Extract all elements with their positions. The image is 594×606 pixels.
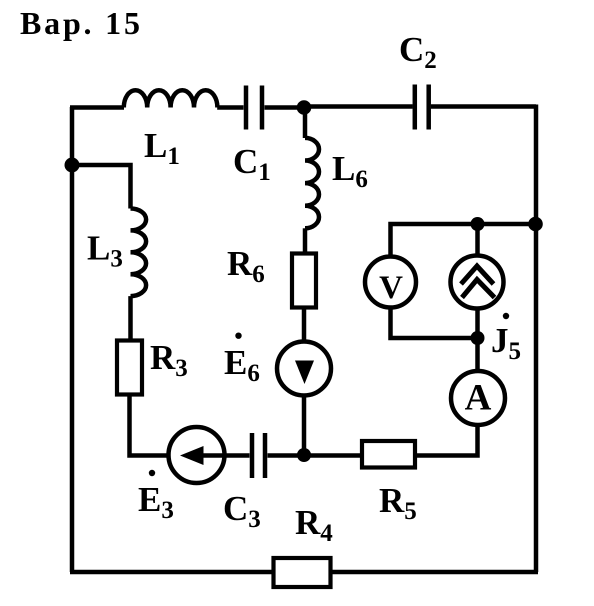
- wire C3 to node C: [268, 453, 305, 458]
- inductor L1: [124, 90, 218, 107]
- wire J5 to node D: [475, 309, 480, 339]
- wire bottom horizontal left of R4: [70, 570, 272, 575]
- svg-text:E6: E6: [224, 343, 260, 387]
- wire node A down to L6: [303, 108, 308, 139]
- EMF source E3: [169, 427, 225, 483]
- node F junction dot right: [528, 217, 543, 232]
- capacitor C1: [246, 86, 262, 130]
- J5 chevron upper: [461, 266, 494, 284]
- svg-text:R4: R4: [295, 503, 333, 547]
- svg-text:V: V: [379, 270, 403, 306]
- resistor R4: [274, 558, 331, 587]
- E3 dot accent: [149, 470, 155, 476]
- wire E6 to node C: [302, 396, 307, 456]
- wire L3 to R3: [128, 296, 133, 340]
- current source J5: [451, 256, 504, 309]
- E3 arrow: [203, 453, 224, 458]
- svg-text:R5: R5: [379, 481, 417, 525]
- resistor R3: [117, 341, 142, 395]
- E6 dot accent: [235, 333, 241, 339]
- wire L6 to R6: [303, 228, 308, 253]
- wire top left horizontal: [70, 105, 124, 110]
- svg-text:R3: R3: [150, 338, 188, 382]
- wire ammeter to node D: [475, 338, 480, 372]
- wire voltmeter to top wire: [391, 224, 539, 257]
- svg-text:C1: C1: [233, 142, 271, 186]
- wire node E down to J5: [475, 224, 480, 256]
- svg-text:C2: C2: [399, 30, 437, 74]
- resistor R6: [292, 254, 316, 308]
- node D junction dot: [471, 331, 485, 345]
- node E junction dot: [471, 217, 485, 231]
- wire node D to voltmeter branch: [391, 309, 478, 338]
- node A junction dot: [297, 100, 312, 115]
- svg-text:L1: L1: [144, 126, 180, 170]
- svg-text:Вар. 15: Вар. 15: [20, 5, 143, 41]
- wire R3 to E3: [130, 395, 169, 456]
- wire node B to L3 branch corner: [72, 165, 131, 209]
- wire E3 to C3: [225, 453, 250, 458]
- wire C1 to node A: [265, 105, 305, 110]
- capacitor C2: [415, 85, 429, 130]
- node B junction dot left: [65, 158, 80, 173]
- wire node C to R5: [304, 453, 362, 458]
- wire node A to C2: [304, 104, 413, 109]
- svg-text:J5: J5: [491, 321, 521, 365]
- wire bottom horizontal right of R4: [331, 570, 539, 575]
- node C junction dot: [297, 448, 311, 462]
- J5 chevron lower: [462, 280, 495, 298]
- svg-text:L3: L3: [87, 229, 123, 273]
- EMF source E6: [277, 342, 331, 396]
- resistor R5: [362, 441, 415, 468]
- wire left outer vertical: [70, 107, 75, 572]
- ammeter A: [451, 371, 505, 425]
- wire R5 to ammeter: [415, 426, 478, 456]
- inductor L3: [131, 209, 147, 297]
- svg-text:A: A: [465, 378, 492, 419]
- inductor L6: [305, 138, 319, 228]
- E6 arrow: [295, 361, 314, 385]
- wire R6 to E6: [302, 308, 307, 365]
- J5 dot accent: [503, 313, 509, 319]
- svg-text:C3: C3: [223, 489, 261, 533]
- wire L1 to C1: [217, 105, 243, 110]
- wire C2 to top right corner: [431, 104, 536, 109]
- capacitor C3: [252, 433, 265, 478]
- voltmeter V: [365, 257, 416, 308]
- svg-text:L6: L6: [332, 149, 368, 193]
- svg-text:R6: R6: [227, 244, 265, 288]
- wire right outer vertical: [534, 105, 539, 573]
- svg-text:E3: E3: [138, 480, 174, 524]
